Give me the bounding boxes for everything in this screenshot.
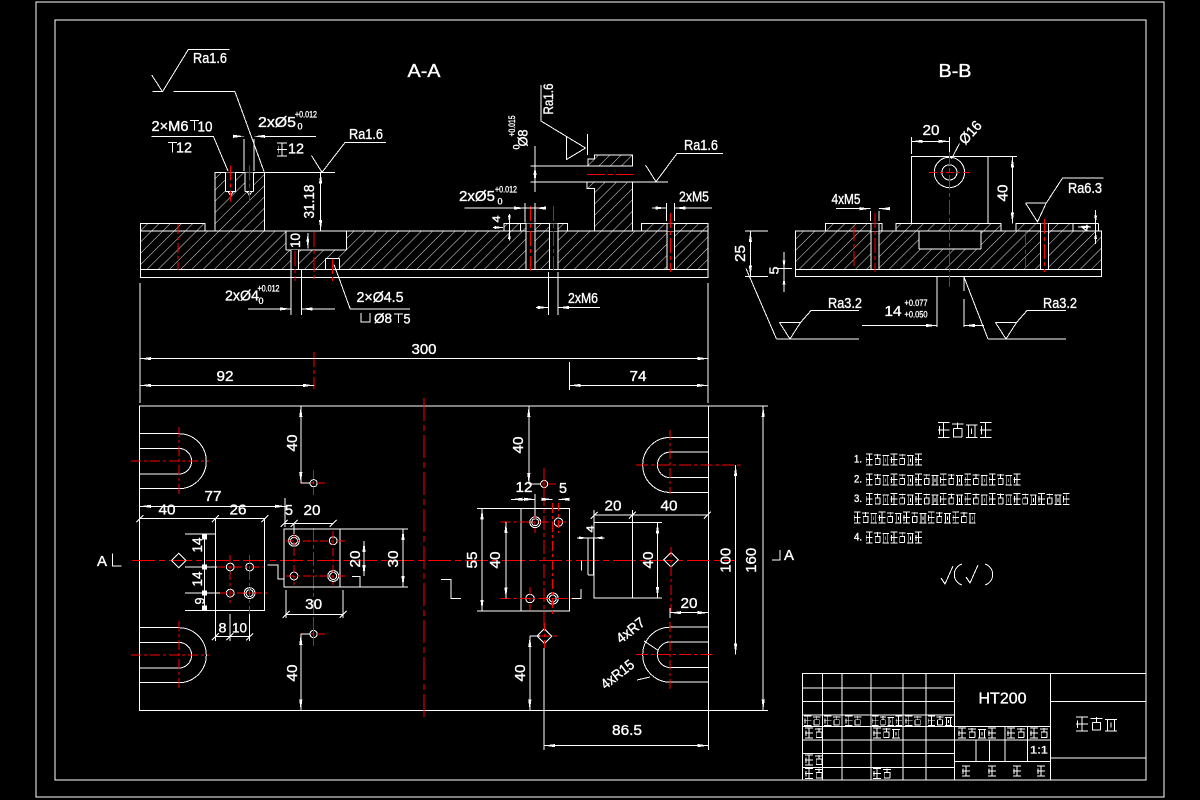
title block grid — [954, 674, 956, 781]
A-A plate bottom strip — [141, 269, 709, 277]
dimension 20 40 top row right — [594, 514, 707, 516]
A-A recess 10 deep (void) — [286, 232, 347, 251]
dimension 74 — [570, 384, 708, 386]
boss3 rectangle — [521, 508, 570, 610]
svg-text:40: 40 — [285, 665, 301, 682]
svg-text:5: 5 — [404, 312, 411, 327]
boss3 holes — [532, 519, 539, 526]
svg-text:26: 26 — [230, 503, 247, 519]
dimension 14 14 9 column — [204, 534, 206, 611]
boss4 rectangle — [594, 523, 632, 599]
svg-text:4.: 4. — [854, 532, 862, 544]
svg-text:+0.077: +0.077 — [905, 298, 928, 309]
label weight — [1007, 728, 1025, 738]
U-slot bottom-left — [140, 627, 179, 629]
svg-text:0: 0 — [512, 145, 522, 150]
svg-text:1:1: 1:1 — [1030, 745, 1048, 757]
A-A plate cross-section (hatched) — [141, 231, 709, 269]
svg-text:+0.015: +0.015 — [507, 116, 517, 137]
boss2 holes — [291, 537, 298, 544]
svg-text:5: 5 — [559, 481, 567, 497]
dimension 30 below boss2 — [286, 613, 343, 615]
svg-text:20: 20 — [923, 123, 940, 139]
title block row labels — [804, 716, 820, 726]
boss2 rectangle — [284, 529, 340, 587]
dimension 40 B-B — [1011, 156, 1013, 223]
surface symbol Ra6.3 — [1026, 178, 1104, 222]
A-A plate top edge segments — [205, 230, 215, 232]
svg-text:10: 10 — [232, 621, 247, 636]
hole top-right of center — [541, 480, 548, 487]
U-slot bottom-right — [670, 626, 709, 628]
svg-text:2.: 2. — [854, 474, 862, 486]
A-A mid pad (hatched) — [504, 224, 567, 231]
boss2 vertical centerline — [313, 528, 315, 646]
surface symbol Ra1.6 top-left — [152, 50, 230, 92]
locating hole diamond bottom — [537, 629, 552, 644]
svg-text:40: 40 — [513, 665, 529, 682]
B-B key tab below plate — [936, 277, 938, 328]
label check — [805, 755, 823, 765]
surface symbol Ra1.6 right of middle boss — [646, 154, 724, 182]
B-B right pad (hatched) — [1016, 224, 1073, 232]
svg-text:14: 14 — [885, 304, 902, 320]
svg-text:74: 74 — [630, 369, 647, 385]
boss3 vertical centerline — [543, 468, 545, 628]
svg-text:B-B: B-B — [939, 61, 972, 81]
A-A centerline O4 hole A — [294, 251, 296, 281]
label design — [805, 728, 823, 738]
label standardization — [873, 728, 900, 738]
svg-text:14: 14 — [190, 537, 205, 552]
svg-text:1.: 1. — [854, 454, 862, 466]
svg-text:+0.012: +0.012 — [495, 185, 517, 196]
svg-text:0: 0 — [498, 197, 503, 208]
svg-text:0: 0 — [259, 296, 264, 307]
A-A centerline left pad hole — [177, 224, 179, 270]
dimension 40 26 row — [140, 518, 265, 520]
locating hole diamond left — [172, 553, 187, 568]
svg-text:40: 40 — [511, 437, 527, 454]
dimension 40 bottom-right — [529, 636, 531, 710]
svg-text:92: 92 — [217, 369, 234, 385]
dimension 20 bottom right — [670, 612, 709, 614]
svg-text:300: 300 — [412, 342, 437, 358]
A-A counterbore notch (void) — [326, 258, 340, 269]
svg-text:4xM5: 4xM5 — [832, 192, 861, 208]
A-A middle boss top block (hatched) — [588, 155, 633, 166]
B-B hole O16 circle — [934, 157, 964, 187]
label scale — [1030, 728, 1048, 738]
A-A M6 tapped hole 1 in left boss — [226, 172, 236, 191]
A-A O5 hole 2 in left boss — [245, 172, 254, 191]
svg-text:40: 40 — [285, 435, 301, 452]
A-A centerline O8 axis — [587, 173, 633, 175]
svg-text:86.5: 86.5 — [612, 723, 642, 739]
B-B bottom strip — [796, 269, 1102, 276]
A-A hole 2xM5 channel — [667, 231, 674, 269]
svg-text:25: 25 — [733, 245, 749, 262]
svg-text:77: 77 — [205, 489, 222, 505]
A-A hole O5/M6 channel 2 — [549, 231, 558, 269]
svg-text:2xØ5: 2xØ5 — [459, 189, 495, 205]
A-A centerline mid pad hole 1 — [529, 206, 531, 272]
hole top-left of center — [310, 480, 317, 487]
A-A middle boss O8 hole band — [530, 165, 632, 167]
svg-text:12: 12 — [516, 480, 533, 496]
svg-text:30: 30 — [305, 597, 322, 613]
svg-text:HT200: HT200 — [979, 691, 1027, 708]
dimension 160 — [762, 406, 764, 710]
dimension 40 top-right — [528, 406, 530, 484]
svg-text:12: 12 — [288, 142, 304, 158]
svg-text:Ra6.3: Ra6.3 — [1068, 181, 1102, 197]
svg-text:+0.012: +0.012 — [258, 284, 280, 295]
B-B central recess (void) — [919, 232, 981, 250]
A-A centerline ext 92 — [313, 352, 315, 389]
svg-text:100: 100 — [719, 548, 735, 573]
B-B center pad (hatched) — [896, 223, 1001, 231]
svg-text:160: 160 — [744, 548, 760, 573]
A-A centerline counterbore hole — [332, 259, 334, 281]
svg-text:4: 4 — [585, 526, 597, 533]
title block frame — [803, 674, 1146, 781]
dimension 8 10 row — [215, 636, 249, 638]
boss1 rectangle — [215, 519, 264, 611]
section jog zigzag mid-right — [441, 579, 461, 598]
surface symbol Ra1.6 at left boss — [312, 143, 387, 173]
B-B left pad (hatched) — [825, 223, 882, 231]
svg-text:10: 10 — [288, 233, 303, 248]
svg-text:4: 4 — [491, 216, 503, 223]
tech requirements line 3b — [854, 512, 976, 523]
svg-text:40: 40 — [661, 499, 678, 515]
U-slot top-right — [670, 436, 709, 438]
svg-text:2xM5: 2xM5 — [679, 190, 709, 206]
section mark A right — [772, 550, 780, 560]
svg-text:2×Ø4.5: 2×Ø4.5 — [357, 290, 404, 306]
A-A hole O5 left channel — [526, 231, 535, 269]
svg-text:A: A — [97, 553, 107, 570]
svg-text:Ra3.2: Ra3.2 — [1043, 296, 1077, 312]
section jog zigzag right — [352, 577, 367, 588]
B-B hole O8 circle — [942, 165, 957, 180]
dimension 4 pad height — [508, 214, 510, 241]
B-B red centerlines — [949, 150, 951, 287]
A-A centerline 2xM5 hole — [669, 213, 671, 272]
dimension 10 recess — [307, 233, 309, 249]
surface symbol Ra3.2 left — [777, 338, 860, 340]
svg-text:9: 9 — [193, 598, 208, 605]
boss1 holes — [226, 563, 234, 571]
B-B plate cross-section (hatched) — [796, 231, 1102, 269]
svg-text:0: 0 — [298, 122, 303, 133]
dimension 25 plate — [749, 231, 751, 277]
svg-text:A-A: A-A — [408, 61, 441, 81]
A-A left pad (hatched) — [141, 223, 205, 231]
tech requirements title — [938, 423, 992, 438]
sheet count row — [962, 766, 970, 776]
locating hole diamond right — [664, 553, 679, 568]
svg-text:55: 55 — [465, 552, 481, 569]
U-slot top-left — [140, 433, 179, 435]
A-A centerline boss2 axis — [313, 232, 315, 281]
A-A left boss (hatched) — [215, 172, 265, 231]
svg-text:2xØ5: 2xØ5 — [258, 115, 296, 131]
svg-text:5: 5 — [767, 267, 782, 275]
title block part name — [1076, 717, 1117, 731]
section jog zigzag left — [268, 565, 284, 579]
svg-text:2xM6: 2xM6 — [568, 291, 598, 307]
svg-text:+0.012: +0.012 — [295, 110, 317, 121]
svg-text:12: 12 — [176, 141, 192, 157]
hole bottom-left of center — [310, 630, 317, 637]
dimension 12 — [511, 498, 535, 500]
svg-text:3.: 3. — [854, 493, 862, 505]
surface finish note symbols — [941, 566, 953, 584]
svg-text:40: 40 — [996, 185, 1012, 202]
svg-text:20: 20 — [348, 551, 364, 568]
svg-text:Ra3.2: Ra3.2 — [828, 296, 862, 312]
svg-text:Ra1.6: Ra1.6 — [193, 51, 227, 67]
svg-text:40: 40 — [488, 552, 504, 569]
surface symbol Ra1.6 rotated at O8 hole — [541, 85, 586, 160]
svg-text:20: 20 — [681, 596, 698, 612]
svg-text:Ra1.6: Ra1.6 — [684, 138, 718, 154]
dimension 40 boss3 — [505, 522, 507, 598]
dimension 55 boss3 — [481, 508, 483, 610]
label approve — [873, 769, 891, 779]
dimension 40 vertical boss4 — [657, 523, 659, 599]
B-B right pad hole channel — [1041, 231, 1049, 269]
B-B right lip outline — [1073, 223, 1099, 225]
B-B central boss outline — [912, 156, 989, 223]
dimension 92 — [140, 384, 314, 386]
dimension 40 top-left — [300, 406, 302, 483]
dimension 5 20 row boss2 — [284, 522, 333, 524]
surface symbol Ra3.2 right — [988, 338, 1066, 340]
dimension 5 strip — [783, 252, 785, 292]
svg-text:5: 5 — [285, 503, 293, 519]
plan main vertical centerline — [423, 398, 425, 717]
dimension 31.18 — [320, 172, 322, 231]
plan main horizontal centerline — [132, 559, 736, 561]
dimension 20 vertical boss2 — [363, 541, 365, 576]
A-A centerline mid pad hole 2 — [553, 206, 555, 272]
A-A mid pad hole voids — [526, 224, 535, 231]
svg-text:40: 40 — [641, 552, 657, 569]
narrow step tab left of boss4 — [587, 538, 589, 575]
A-A centerline O5 hole 2 — [248, 166, 250, 202]
svg-text:4: 4 — [1080, 225, 1092, 232]
label process — [805, 769, 823, 779]
dimension 40 bottom-left — [300, 634, 302, 711]
label stage mark — [958, 728, 996, 738]
svg-text:20: 20 — [605, 499, 622, 515]
A-A centerline M6 hole 1 — [230, 166, 232, 202]
dimension 77 — [140, 505, 286, 507]
dimension 300 — [140, 358, 709, 360]
svg-text:Ra1.6: Ra1.6 — [349, 127, 383, 143]
svg-text:2xØ4: 2xØ4 — [225, 289, 259, 305]
svg-text:Ra1.6: Ra1.6 — [541, 84, 556, 115]
svg-text:30: 30 — [386, 551, 402, 568]
svg-text:+0.050: +0.050 — [905, 310, 928, 321]
svg-text:2×M6: 2×M6 — [152, 119, 189, 135]
leader to boss top — [153, 91, 163, 93]
dimension 30 vertical boss2 — [402, 529, 404, 587]
svg-text:40: 40 — [159, 503, 176, 519]
svg-text:A: A — [784, 547, 794, 564]
A-A middle boss column (hatched) — [587, 182, 633, 231]
A-A right pad (hatched) — [642, 223, 708, 231]
svg-text:Ø8: Ø8 — [374, 311, 392, 326]
dimension 4 plan — [577, 537, 588, 539]
plan view outline — [140, 406, 709, 711]
svg-text:14: 14 — [190, 571, 205, 586]
A-A hole 2xO4 channel — [291, 250, 298, 269]
svg-text:20: 20 — [304, 503, 321, 519]
svg-text:31.18: 31.18 — [302, 185, 318, 219]
svg-text:8: 8 — [219, 621, 227, 636]
dimension 4 right lip — [1095, 210, 1097, 244]
B-B left pad hole channel — [871, 231, 879, 269]
svg-text:10: 10 — [198, 120, 213, 136]
dimension 20 B-B — [912, 140, 950, 142]
dimension 5 boss3 — [545, 498, 553, 500]
dimension 86.5 — [544, 745, 709, 747]
dimension 100 — [735, 465, 737, 655]
